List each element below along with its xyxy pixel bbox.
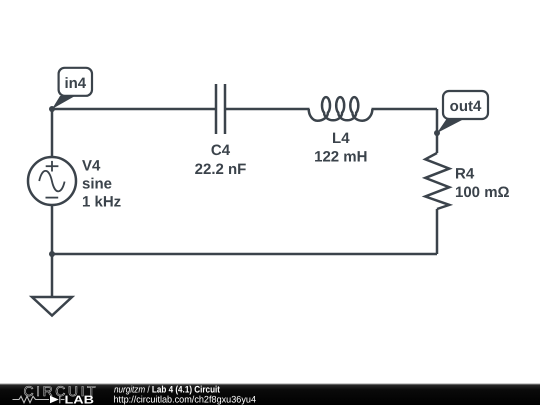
svg-text:R4: R4 (455, 166, 475, 183)
svg-text:122 mH: 122 mH (314, 149, 367, 166)
svg-text:C4: C4 (211, 142, 231, 159)
svg-text:22.2 nF: 22.2 nF (195, 161, 247, 178)
svg-text:100 mΩ: 100 mΩ (455, 184, 510, 201)
svg-text:in4: in4 (64, 75, 86, 92)
svg-text:1 kHz: 1 kHz (82, 194, 121, 211)
svg-text:LAB: LAB (65, 394, 95, 405)
svg-text:L4: L4 (332, 130, 350, 147)
svg-text:V4: V4 (82, 158, 101, 175)
svg-text:sine: sine (82, 176, 112, 193)
svg-text:out4: out4 (450, 98, 482, 115)
svg-text:http://circuitlab.com/ch2f8gxu: http://circuitlab.com/ch2f8gxu36yu4 (114, 394, 257, 405)
